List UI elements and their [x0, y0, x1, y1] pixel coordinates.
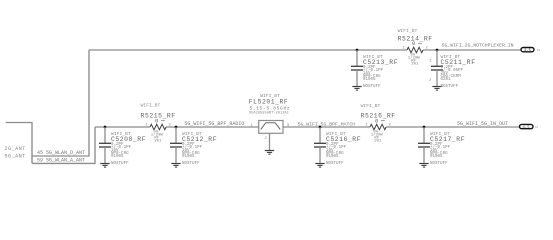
svg-text:NOSTUFF: NOSTUFF	[182, 162, 200, 166]
net label 5G_WIFI_5G_BPF_MATCH	[298, 122, 356, 128]
ground (C5213)	[352, 87, 361, 91]
svg-text:NOSTUFF: NOSTUFF	[430, 162, 448, 166]
svg-text:01005: 01005	[182, 155, 195, 159]
net label 5G_WIFI_5G_BPF_RADIO	[184, 121, 244, 127]
resistor R5216_RF symbol	[370, 124, 386, 129]
svg-text:5G_WIFI_5G_IN_OUT: 5G_WIFI_5G_IN_OUT	[457, 121, 508, 127]
svg-text:FL5201_RF: FL5201_RF	[249, 99, 288, 106]
capacitor C5213_RF symbol	[351, 50, 363, 86]
svg-text:201: 201	[374, 140, 382, 144]
svg-text:5G_ANT: 5G_ANT	[5, 154, 26, 160]
sheet ref (bottom connector)	[535, 126, 539, 129]
wire bottom rail (R5215 to FL5201)	[166, 126, 259, 128]
net label 45 5G_WLAN_D_ANT	[37, 150, 85, 156]
junction node C5217	[423, 126, 426, 129]
pin 1 C5211	[429, 60, 432, 64]
pin name 2G_ANT	[5, 146, 26, 152]
pin 2 FL5201	[265, 137, 268, 141]
sheet ref (top connector)	[537, 49, 541, 52]
pin 1 R5214	[402, 46, 405, 50]
pin 3 FL5201	[287, 124, 290, 128]
svg-text:01005: 01005	[326, 155, 339, 159]
pin 2 C5211	[429, 79, 432, 83]
svg-text:5G_WIFI_2G_NOTCHPLEXER_IN: 5G_WIFI_2G_NOTCHPLEXER_IN	[442, 43, 514, 49]
wire bottom rail (FL5201 to R5216)	[283, 126, 370, 128]
pin 2 R5215	[168, 123, 171, 127]
svg-text:201: 201	[411, 63, 419, 67]
value labels C5213_RF	[363, 54, 398, 89]
svg-text:NOSTUFF: NOSTUFF	[326, 162, 344, 166]
pin 2 R5216	[388, 123, 391, 127]
svg-text:WIFI_BT: WIFI_BT	[361, 103, 381, 109]
labels R5216_RF	[361, 103, 396, 144]
svg-text:4,5: 4,5	[524, 49, 531, 53]
svg-text:45 5G_WLAN_D_ANT: 45 5G_WLAN_D_ANT	[37, 150, 85, 156]
svg-text:5G_WIFI_5G_BPF_MATCH: 5G_WIFI_5G_BPF_MATCH	[298, 122, 356, 128]
svg-text:DEA205850BT-2012A1: DEA205850BT-2012A1	[249, 111, 290, 115]
svg-text:01005: 01005	[430, 155, 443, 159]
filter FL5201_RF box	[259, 121, 283, 134]
pin 1 FL5201	[251, 124, 254, 128]
resistor R5214_RF symbol	[407, 47, 423, 52]
labels FL5201_RF	[249, 93, 290, 115]
ground (C5212)	[171, 164, 180, 168]
net label 59 5G_WLAN_A_ANT	[37, 157, 85, 163]
capacitor C5211_RF symbol	[431, 50, 443, 86]
wire 5G_WLAN_A_ANT (5G path up to bottom rail)	[32, 127, 95, 163]
ground (C5216)	[315, 164, 324, 168]
svg-text:01005: 01005	[111, 155, 124, 159]
capacitor C5217_RF symbol	[418, 127, 430, 163]
junction node C5216	[319, 126, 322, 129]
value labels C5216_RF	[326, 131, 361, 166]
svg-text:0201: 0201	[441, 78, 452, 82]
value labels C5217_RF	[430, 131, 465, 166]
ground (C5211)	[432, 87, 441, 91]
pin 1 R5216	[365, 123, 368, 127]
junction node C5208	[104, 126, 107, 129]
capacitor C5212_RF symbol	[170, 127, 182, 163]
svg-text:201: 201	[154, 140, 162, 144]
wire bottom rail (left of R5215)	[95, 126, 150, 128]
svg-text:59 5G_WLAN_A_ANT: 59 5G_WLAN_A_ANT	[37, 157, 85, 163]
net label 5G_WIFI_2G_NOTCHPLEXER_IN	[442, 43, 514, 49]
svg-text:70: 70	[537, 49, 541, 52]
labels R5215_RF	[141, 103, 176, 144]
svg-text:NOSTUFF: NOSTUFF	[363, 85, 381, 89]
off-page connector (top, 5G_WIFI_2G_NOTCHPLEXER_IN)	[521, 48, 534, 54]
svg-text:01005: 01005	[363, 78, 376, 82]
ground (FL5201)	[265, 151, 274, 155]
antenna module edge	[6, 123, 32, 164]
value labels C5212_RF	[182, 131, 217, 166]
junction node C5212	[175, 126, 178, 129]
wire 5G_WLAN_D_ANT (2G path up to top rail)	[32, 50, 89, 156]
svg-text:4,5: 4,5	[523, 126, 530, 130]
wire top rail (left of R5214)	[89, 49, 407, 51]
resistor R5215_RF symbol	[150, 124, 166, 129]
value labels C5208_RF	[111, 131, 146, 166]
wire bottom rail (R5216 to off-page)	[386, 126, 520, 128]
capacitor C5216_RF symbol	[314, 127, 326, 163]
svg-text:70: 70	[535, 126, 539, 129]
ground (C5217)	[419, 164, 428, 168]
off-page connector (bottom, 5G_WIFI_5G_IN_OUT)	[520, 124, 534, 130]
svg-text:WIFI_BT: WIFI_BT	[398, 28, 418, 34]
svg-text:WIFI_BT: WIFI_BT	[141, 103, 161, 109]
labels R5214_RF	[398, 28, 433, 67]
net label 5G_WIFI_5G_IN_OUT	[457, 121, 508, 127]
svg-text:NOSTUFF: NOSTUFF	[441, 85, 459, 89]
value labels C5211_RF	[441, 54, 476, 89]
junction node C5211	[436, 49, 439, 52]
wire top rail (right of R5214)	[423, 49, 521, 51]
junction node C5213	[356, 49, 359, 52]
wire FL5201 pin2 to ground	[269, 133, 271, 150]
svg-text:NOSTUFF: NOSTUFF	[111, 162, 129, 166]
capacitor C5208_RF symbol	[99, 127, 111, 163]
pin name 5G_ANT	[5, 154, 26, 160]
ground (C5208)	[100, 164, 109, 168]
svg-text:2G_ANT: 2G_ANT	[5, 146, 26, 152]
pin 2 R5214	[425, 46, 428, 50]
pin 1 R5215	[145, 123, 148, 127]
svg-text:5G_WIFI_5G_BPF_RADIO: 5G_WIFI_5G_BPF_RADIO	[184, 121, 244, 127]
